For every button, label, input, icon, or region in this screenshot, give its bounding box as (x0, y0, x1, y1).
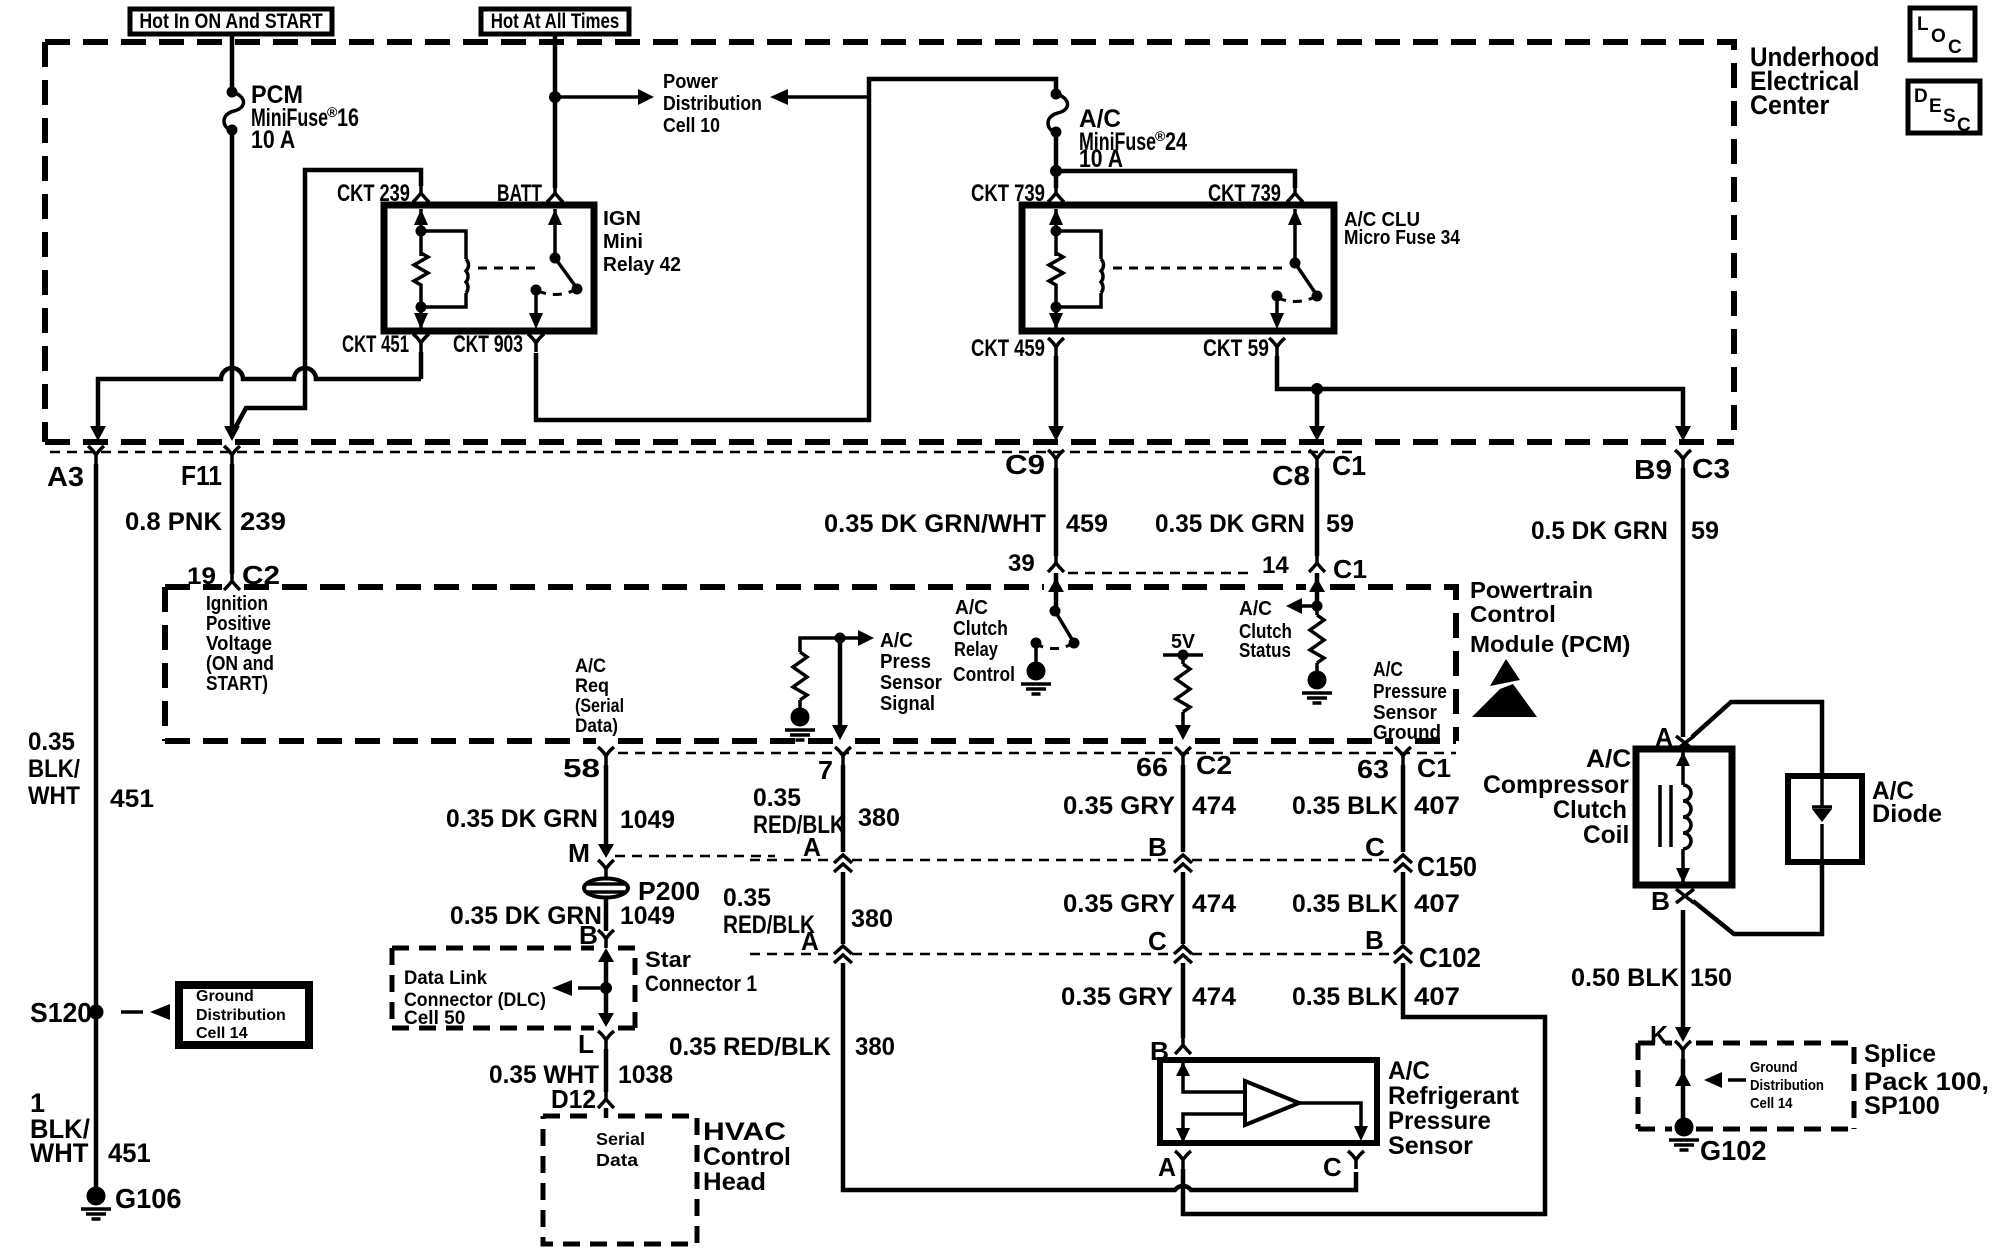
wire CKT59 to C8/C1 and B9/C3 (1277, 356, 1683, 428)
label A/C CLU Micro Fuse 34 (1344, 208, 1461, 248)
label A/C Compressor Clutch Coil (1483, 746, 1631, 850)
svg-text:10 A: 10 A (1079, 144, 1123, 172)
label 0.8 PNK 239 (125, 507, 286, 536)
svg-text:Ground: Ground (196, 988, 254, 1005)
svg-text:0.5 DK GRN: 0.5 DK GRN (1531, 518, 1668, 545)
junction dot below fuse (1050, 165, 1062, 177)
arrow into C8/C1 (1309, 426, 1325, 441)
fuse PCM MiniFuse 16 (224, 87, 244, 136)
label 0.35 RED/BLK 380 row3 (669, 1034, 895, 1062)
wire 407 row3 loop around sensor (1183, 963, 1545, 1214)
svg-text:C: C (1323, 1152, 1342, 1182)
C102 connector line (750, 942, 1481, 973)
relay switch (right) (529, 209, 583, 329)
svg-text:407: 407 (1414, 791, 1460, 819)
svg-text:A/C: A/C (575, 655, 606, 677)
wire CKT459 to C9 (1054, 356, 1059, 428)
wire inside star connector (598, 948, 614, 1027)
svg-text:Diode: Diode (1872, 800, 1942, 828)
connector C (sensor) (1323, 1151, 1364, 1182)
svg-text:A/C: A/C (1373, 658, 1403, 680)
svg-text:10 A: 10 A (251, 125, 295, 153)
svg-text:Splice: Splice (1864, 1041, 1936, 1068)
svg-text:C3: C3 (1692, 454, 1730, 485)
svg-text:Distribution: Distribution (196, 1007, 286, 1024)
svg-text:C102: C102 (1419, 942, 1481, 973)
svg-text:Mini: Mini (603, 231, 643, 253)
svg-text:380: 380 (855, 1034, 895, 1062)
svg-text:Hot At All Times: Hot At All Times (491, 10, 620, 33)
ground distribution cell 14 reference arrow (1704, 1072, 1746, 1088)
connector row thin dashed line (50, 451, 1355, 454)
svg-text:0.35 BLK: 0.35 BLK (1292, 983, 1398, 1011)
connector pin 63 C1 (1357, 747, 1451, 784)
svg-text:0.35 DK GRN: 0.35 DK GRN (446, 806, 598, 833)
wire 0.35 DK GRN/WHT 459 (1054, 468, 1059, 556)
svg-text:239: 239 (240, 507, 286, 535)
A/C diode box (1788, 776, 1862, 862)
svg-text:Control: Control (703, 1143, 791, 1171)
svg-text:Clutch: Clutch (1553, 796, 1627, 824)
wire 0.50 BLK 150 (1681, 910, 1686, 1027)
svg-text:HVAC: HVAC (703, 1117, 786, 1145)
pin 39 border arrow (1048, 578, 1064, 592)
wire CKT451 to A3 row (98, 352, 421, 428)
connector M (568, 838, 775, 878)
connector CKT 451 (342, 331, 429, 358)
svg-text:Compressor: Compressor (1483, 771, 1629, 799)
wire 380 row3 down and to sensor pin C (843, 963, 1356, 1190)
wire 474 row3 (1181, 963, 1186, 1038)
svg-text:CKT 459: CKT 459 (971, 335, 1045, 362)
svg-text:S: S (1943, 106, 1956, 127)
connector pin 7 (818, 747, 851, 785)
ESD symbol (1472, 659, 1537, 717)
connector CKT 59 (1203, 334, 1285, 362)
label Powertrain Control Module (PCM) (1470, 577, 1630, 657)
ground distribution cell 14 box (left) (179, 985, 309, 1045)
svg-text:0.35: 0.35 (28, 729, 75, 756)
star connector 1 dashed box (392, 948, 635, 1028)
sensor box (1160, 1060, 1377, 1143)
svg-text:Distribution: Distribution (1750, 1076, 1824, 1093)
connector 14 C1 (1262, 552, 1367, 584)
svg-text:39: 39 (1008, 550, 1035, 577)
label Underhood Electrical Center (1750, 43, 1880, 120)
C150 connector line (750, 851, 1477, 883)
relay dashed actuation link (478, 267, 537, 270)
ground (press sensor signal) (785, 708, 815, 741)
connector C8 / C1 (1272, 449, 1366, 491)
connector C9 (1005, 449, 1064, 480)
svg-text:Ground: Ground (1373, 722, 1441, 745)
relay switch (right) (1270, 209, 1323, 329)
svg-text:Signal: Signal (880, 693, 935, 715)
svg-text:0.50 BLK: 0.50 BLK (1571, 964, 1679, 992)
label A/C Refrigerant Pressure Sensor (1388, 1058, 1519, 1160)
label 0.35 BLK 407 row1 (1292, 791, 1460, 820)
svg-text:150: 150 (1690, 964, 1732, 992)
connector K (1650, 1022, 1691, 1051)
label A/C Req (Serial Data) (575, 655, 624, 737)
svg-text:Head: Head (703, 1168, 766, 1196)
connector CKT 903 (453, 331, 544, 357)
label Ground Distribution Cell 14 (splice pack) (1750, 1058, 1824, 1111)
wire fuse down to F11 arrow (230, 131, 235, 428)
svg-text:Coil: Coil (1583, 822, 1629, 849)
wire 0.5 DK GRN 59 (1681, 468, 1686, 737)
connector B (sensor) (1150, 1036, 1191, 1066)
svg-text:C1: C1 (1333, 554, 1367, 584)
wire fuse to junction and over to right CKT739 (1056, 132, 1295, 188)
svg-text:0.35 DK GRN: 0.35 DK GRN (1155, 511, 1305, 538)
svg-text:0.35: 0.35 (723, 885, 771, 912)
label Star Connector 1 (645, 947, 757, 997)
svg-text:B: B (1651, 886, 1670, 916)
svg-text:B: B (579, 920, 598, 950)
svg-text:Powertrain: Powertrain (1470, 577, 1593, 603)
svg-text:C2: C2 (1196, 750, 1232, 780)
wire 0.35 DK GRN 59 (1315, 468, 1320, 556)
connector B at C102 (1365, 925, 1412, 963)
svg-text:RED/BLK: RED/BLK (753, 810, 845, 838)
svg-text:Cell 14: Cell 14 (196, 1025, 248, 1042)
svg-text:0.35 GRY: 0.35 GRY (1061, 983, 1173, 1011)
wire A to diode (1692, 702, 1822, 776)
svg-text:474: 474 (1192, 793, 1237, 820)
svg-text:SP100: SP100 (1864, 1092, 1940, 1120)
junction dot (549, 91, 561, 103)
label PCM MiniFuse 16 10A (251, 81, 359, 153)
arrow from feed line to Power Distribution (left) (770, 89, 869, 105)
svg-text:S120: S120 (30, 996, 92, 1028)
wire down to BATT (553, 34, 558, 188)
svg-text:O: O (1931, 26, 1946, 47)
PCM bottom thin connector line (618, 752, 1456, 755)
connector CKT 239 (337, 180, 429, 207)
svg-text:Data: Data (596, 1150, 639, 1170)
connector D12 (551, 1085, 614, 1118)
relay box IGN Mini Relay 42 (384, 205, 594, 331)
svg-text:14: 14 (1262, 552, 1289, 579)
wire 407 row2 (1401, 872, 1406, 944)
A/C clutch relay control switch (1031, 573, 1080, 663)
svg-text:C: C (1957, 115, 1971, 136)
svg-text:A: A (1158, 1154, 1176, 1183)
arrow into B9/C3 (1675, 426, 1691, 441)
svg-text:407: 407 (1414, 889, 1460, 917)
label Ignition Positive Voltage (ON and START) (206, 592, 274, 695)
wire CKT239 loop to F11 (234, 170, 421, 430)
svg-text:C150: C150 (1417, 851, 1477, 883)
connector BATT (497, 180, 563, 206)
label A/C Diode (1872, 778, 1942, 828)
label 0.35 BLK/WHT 451 (upper) (28, 729, 154, 813)
connector A at C102 (801, 927, 852, 963)
wire pin14 into PCM (1315, 573, 1320, 606)
pin 14 border arrow (1309, 578, 1325, 592)
svg-text:A/C: A/C (955, 597, 988, 619)
svg-text:CKT 739: CKT 739 (971, 180, 1045, 207)
svg-text:0.35 BLK: 0.35 BLK (1292, 792, 1398, 820)
wire 0.35 BLK/WHT 451 (94, 464, 99, 1196)
connector C at C150 (1365, 833, 1412, 872)
svg-text:0.35 GRY: 0.35 GRY (1063, 792, 1175, 820)
label A/C MiniFuse 24 10A (1079, 106, 1187, 173)
svg-text:Module (PCM): Module (PCM) (1470, 631, 1630, 656)
label 0.35 DK GRN 1049 (lower) (450, 902, 675, 930)
svg-text:L: L (578, 1029, 594, 1059)
svg-text:459: 459 (1066, 510, 1108, 538)
clutch plates (1660, 785, 1671, 847)
svg-text:C9: C9 (1005, 449, 1045, 480)
diode symbol (1812, 807, 1832, 822)
wire CKT 903 run (536, 79, 1056, 420)
svg-text:C1: C1 (1332, 449, 1366, 481)
svg-text:A: A (803, 834, 821, 863)
svg-text:A/C: A/C (880, 630, 913, 652)
connector A (sensor) (1158, 1151, 1191, 1182)
label Data Link Connector (DLC) Cell 50 inside box (404, 967, 546, 1029)
label Power Distribution Cell 10 (663, 71, 762, 136)
connector pin 66 C2 (1136, 747, 1232, 782)
5V supply and resistor (1163, 631, 1203, 740)
relay coil branch (left) (414, 209, 468, 329)
svg-text:CKT 739: CKT 739 (1208, 180, 1281, 207)
svg-text:B: B (1148, 832, 1167, 862)
wire 474 row1 (1181, 765, 1186, 852)
connector A (compressor) (1655, 724, 1694, 753)
connector 39 (1008, 550, 1064, 577)
splice pack internal wire (1675, 1041, 1691, 1119)
connector B at C150 (1148, 832, 1192, 872)
svg-text:474: 474 (1192, 891, 1237, 918)
svg-text:Press: Press (880, 650, 931, 673)
svg-text:0.35 DK GRN/WHT: 0.35 DK GRN/WHT (824, 510, 1047, 538)
svg-text:Ground: Ground (1750, 1058, 1798, 1075)
connector F11 (181, 446, 240, 491)
svg-text:Serial: Serial (596, 1129, 645, 1149)
svg-text:C: C (1365, 833, 1385, 862)
label HVAC Control Head (703, 1117, 791, 1196)
svg-text:7: 7 (818, 755, 833, 784)
svg-text:Distribution: Distribution (663, 92, 762, 114)
label 0.35 DK GRN/WHT 459 (824, 510, 1108, 538)
svg-text:Control: Control (953, 663, 1015, 685)
underhood electrical center box (45, 42, 1734, 442)
svg-text:Clutch: Clutch (953, 617, 1008, 639)
ground G102 (1669, 1118, 1766, 1167)
label 0.35 GRY 474 row2 (1063, 890, 1237, 918)
label 0.35 DK GRN 1049 (upper) (446, 806, 675, 834)
svg-text:C: C (1948, 37, 1962, 58)
connector B (star connector) (579, 920, 614, 950)
svg-text:Relay 42: Relay 42 (603, 254, 681, 276)
label A/C Clutch Relay Control (953, 597, 1015, 686)
svg-text:407: 407 (1414, 982, 1460, 1010)
label Serial Data inside HVAC box (596, 1129, 645, 1170)
label 0.35 WHT 1038 (489, 1061, 673, 1089)
label 0.35 BLK 407 row2 (1292, 889, 1460, 918)
connector CKT 739 right (1208, 180, 1303, 207)
svg-text:CKT 59: CKT 59 (1203, 334, 1269, 362)
connector 19 C2 (187, 561, 280, 590)
svg-text:0.35 BLK: 0.35 BLK (1292, 890, 1398, 918)
svg-text:A/C: A/C (1239, 598, 1272, 620)
label 0.35 RED/BLK 380 row2 (723, 885, 893, 939)
svg-text:1049: 1049 (620, 902, 675, 930)
svg-text:58: 58 (563, 754, 600, 783)
label 0.35 BLK 407 row3 (1292, 982, 1460, 1011)
svg-text:Data): Data) (575, 715, 618, 736)
wire 0.8 PNK 239 (230, 464, 235, 574)
connector pin 58 (563, 747, 614, 783)
label 0.35 GRY 474 row3 (1061, 983, 1237, 1011)
svg-text:Status: Status (1239, 639, 1291, 662)
wire 0.35 WHT 1038 (604, 1049, 609, 1092)
DESC box (1908, 81, 1980, 136)
svg-text:Relay: Relay (954, 637, 999, 660)
svg-text:G106: G106 (115, 1183, 181, 1214)
svg-text:G102: G102 (1700, 1135, 1766, 1166)
svg-text:1049: 1049 (620, 806, 675, 834)
splice S120 (30, 996, 170, 1028)
connector B9 / C3 (1634, 450, 1730, 486)
svg-text:Refrigerant: Refrigerant (1388, 1083, 1519, 1110)
svg-text:Data Link: Data Link (404, 967, 488, 988)
svg-text:CKT 903: CKT 903 (453, 331, 523, 357)
svg-text:START): START) (206, 672, 268, 694)
op-amp triangle (1245, 1081, 1299, 1125)
wire 380 row2 (841, 872, 846, 944)
svg-text:B9: B9 (1634, 455, 1672, 486)
svg-text:D12: D12 (551, 1085, 596, 1114)
fuse A/C MiniFuse 24 (1048, 89, 1068, 138)
label Splice Pack 100, SP100 (1864, 1041, 1989, 1120)
A/C press sensor signal resistor network (793, 630, 874, 740)
svg-text:Center: Center (1750, 89, 1829, 120)
svg-text:Connector 1: Connector 1 (645, 972, 757, 997)
connector A3 (47, 446, 104, 493)
inline connector P200 (584, 876, 700, 931)
svg-text:451: 451 (108, 1137, 151, 1168)
svg-text:WHT: WHT (30, 1137, 88, 1168)
svg-text:Star: Star (645, 947, 691, 972)
PCM top thin connector line (1068, 572, 1250, 575)
svg-text:A: A (801, 927, 819, 956)
svg-text:0.35: 0.35 (753, 785, 801, 812)
svg-text:Hot In ON And START: Hot In ON And START (139, 10, 322, 34)
svg-text:Connector (DLC): Connector (DLC) (404, 988, 546, 1010)
label A/C Clutch Status (1239, 598, 1292, 662)
svg-text:Cell 10: Cell 10 (663, 114, 720, 136)
wire 380 row1 (841, 765, 846, 852)
svg-text:C8: C8 (1272, 461, 1310, 492)
svg-text:IGN: IGN (603, 208, 641, 230)
svg-text:E: E (1929, 96, 1942, 117)
wire from Hot In ON And START to fuse (230, 34, 235, 90)
svg-text:Cell 14: Cell 14 (1750, 1094, 1793, 1111)
ground (clutch relay control) (1021, 662, 1051, 695)
svg-text:CKT 451: CKT 451 (342, 331, 409, 358)
sensor internal wiring (1176, 1062, 1368, 1143)
label 0.35 RED/BLK 380 row1 (753, 785, 900, 839)
wire 474 row2 (1181, 872, 1186, 944)
svg-text:A/C: A/C (1586, 746, 1631, 773)
coil winding (1676, 752, 1691, 883)
svg-text:59: 59 (1691, 517, 1719, 545)
Hot In ON And START label box (130, 9, 332, 34)
svg-text:0.8 PNK: 0.8 PNK (125, 508, 223, 536)
relay coil branch (left) (1049, 209, 1103, 329)
arrow into F11 (224, 426, 240, 441)
svg-text:Sensor: Sensor (880, 672, 942, 694)
svg-text:BATT: BATT (497, 180, 542, 206)
svg-text:474: 474 (1192, 984, 1237, 1011)
svg-text:451: 451 (110, 786, 154, 813)
svg-text:Cell 50: Cell 50 (404, 1008, 465, 1029)
wire 407 row1 (1401, 765, 1406, 852)
splice pack dashed box (1638, 1043, 1854, 1129)
wire 0.35 DK GRN 1049 (upper) (604, 765, 609, 844)
relay box A/C CLU Micro Fuse 34 (1022, 205, 1334, 331)
label IGN Mini Relay 42 (603, 208, 681, 276)
arrow into C9 (1048, 426, 1064, 441)
svg-text:Micro Fuse 34: Micro Fuse 34 (1344, 226, 1461, 248)
powertrain control module box (165, 587, 1456, 741)
svg-text:(Serial: (Serial (575, 695, 624, 717)
svg-text:0.35 GRY: 0.35 GRY (1063, 890, 1175, 918)
svg-text:Power: Power (663, 71, 718, 93)
svg-text:F11: F11 (181, 459, 222, 491)
connector L (578, 1029, 614, 1059)
svg-text:BLK/: BLK/ (28, 756, 80, 783)
svg-text:CKT 239: CKT 239 (337, 180, 410, 207)
svg-text:Control: Control (1470, 602, 1556, 627)
svg-text:Sensor: Sensor (1388, 1132, 1473, 1160)
connector CKT 739 left (971, 180, 1064, 207)
coil box (1636, 749, 1732, 885)
arrow into A3 (90, 426, 106, 441)
label A/C Press Sensor Signal (880, 630, 942, 716)
ground (clutch status) (1302, 671, 1332, 704)
svg-text:B: B (1365, 925, 1384, 955)
arrow to Power Distribution (right) (555, 89, 654, 105)
wire diode to B (1693, 862, 1822, 934)
svg-text:380: 380 (858, 804, 900, 832)
HVAC control head dashed box (543, 1116, 697, 1244)
svg-text:A3: A3 (47, 461, 84, 492)
connector CKT 459 (971, 335, 1064, 362)
connector B (compressor) (1651, 886, 1694, 916)
label 1 BLK/WHT 451 (lower) (30, 1088, 151, 1168)
svg-text:Positive: Positive (206, 612, 271, 635)
svg-text:66: 66 (1136, 752, 1168, 781)
svg-text:D: D (1914, 86, 1928, 107)
svg-text:380: 380 (851, 905, 893, 933)
svg-text:C: C (1148, 926, 1167, 956)
label 0.50 BLK 150 (1571, 964, 1732, 992)
ground G106 (81, 1183, 181, 1219)
relay dashed actuation link (1113, 267, 1283, 270)
Hot At All Times label box (481, 9, 629, 34)
svg-text:A/C: A/C (1388, 1058, 1430, 1085)
DLC reference dashed arrow (552, 980, 600, 996)
A/C clutch status resistor (1286, 598, 1324, 671)
svg-text:Pressure: Pressure (1373, 680, 1447, 702)
label 0.35 GRY 474 row1 (1063, 792, 1237, 820)
svg-text:Pressure: Pressure (1388, 1108, 1491, 1136)
